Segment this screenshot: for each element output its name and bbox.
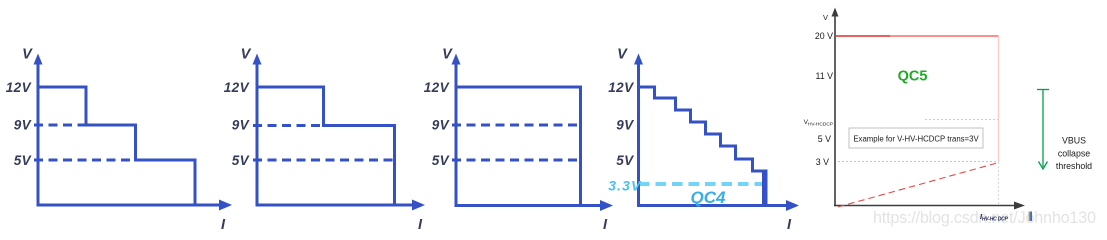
svg-text:I: I bbox=[418, 217, 423, 233]
svg-text:QC5: QC5 bbox=[898, 69, 928, 85]
svg-text:V: V bbox=[22, 47, 33, 63]
svg-text:V: V bbox=[617, 47, 628, 63]
svg-text:threshold: threshold bbox=[1056, 161, 1092, 171]
svg-text:9V: 9V bbox=[616, 118, 634, 133]
svg-text:9V: 9V bbox=[14, 118, 32, 133]
svg-text:collapse: collapse bbox=[1058, 148, 1090, 158]
svg-text:Example for V-HV-HCDCP trans=3: Example for V-HV-HCDCP trans=3V bbox=[853, 134, 979, 143]
svg-text:12V: 12V bbox=[424, 80, 450, 95]
svg-text:12V: 12V bbox=[6, 80, 32, 95]
svg-text:V: V bbox=[442, 47, 453, 63]
svg-text:20 V: 20 V bbox=[815, 31, 833, 41]
svg-text:VHV-HCDCP: VHV-HCDCP bbox=[804, 119, 833, 128]
svg-text:3.3V: 3.3V bbox=[608, 178, 642, 194]
svg-text:VBUS: VBUS bbox=[1062, 136, 1086, 146]
svg-text:QC4: QC4 bbox=[691, 188, 727, 207]
svg-text:I: I bbox=[221, 217, 226, 233]
svg-text:5 V: 5 V bbox=[818, 134, 831, 144]
svg-text:5V: 5V bbox=[232, 153, 250, 168]
svg-text:I: I bbox=[603, 217, 608, 233]
svg-text:9V: 9V bbox=[232, 118, 250, 133]
svg-text:5V: 5V bbox=[14, 153, 32, 168]
svg-text:V: V bbox=[823, 13, 828, 22]
svg-text:V: V bbox=[241, 47, 252, 63]
svg-text:12V: 12V bbox=[224, 80, 250, 95]
svg-text:5V: 5V bbox=[616, 153, 634, 168]
svg-text:3 V: 3 V bbox=[816, 157, 829, 167]
svg-text:11 V: 11 V bbox=[816, 71, 834, 81]
svg-text:5V: 5V bbox=[432, 153, 450, 168]
svg-text:I: I bbox=[787, 217, 792, 233]
svg-text:9V: 9V bbox=[432, 118, 450, 133]
svg-text:12V: 12V bbox=[608, 80, 634, 95]
